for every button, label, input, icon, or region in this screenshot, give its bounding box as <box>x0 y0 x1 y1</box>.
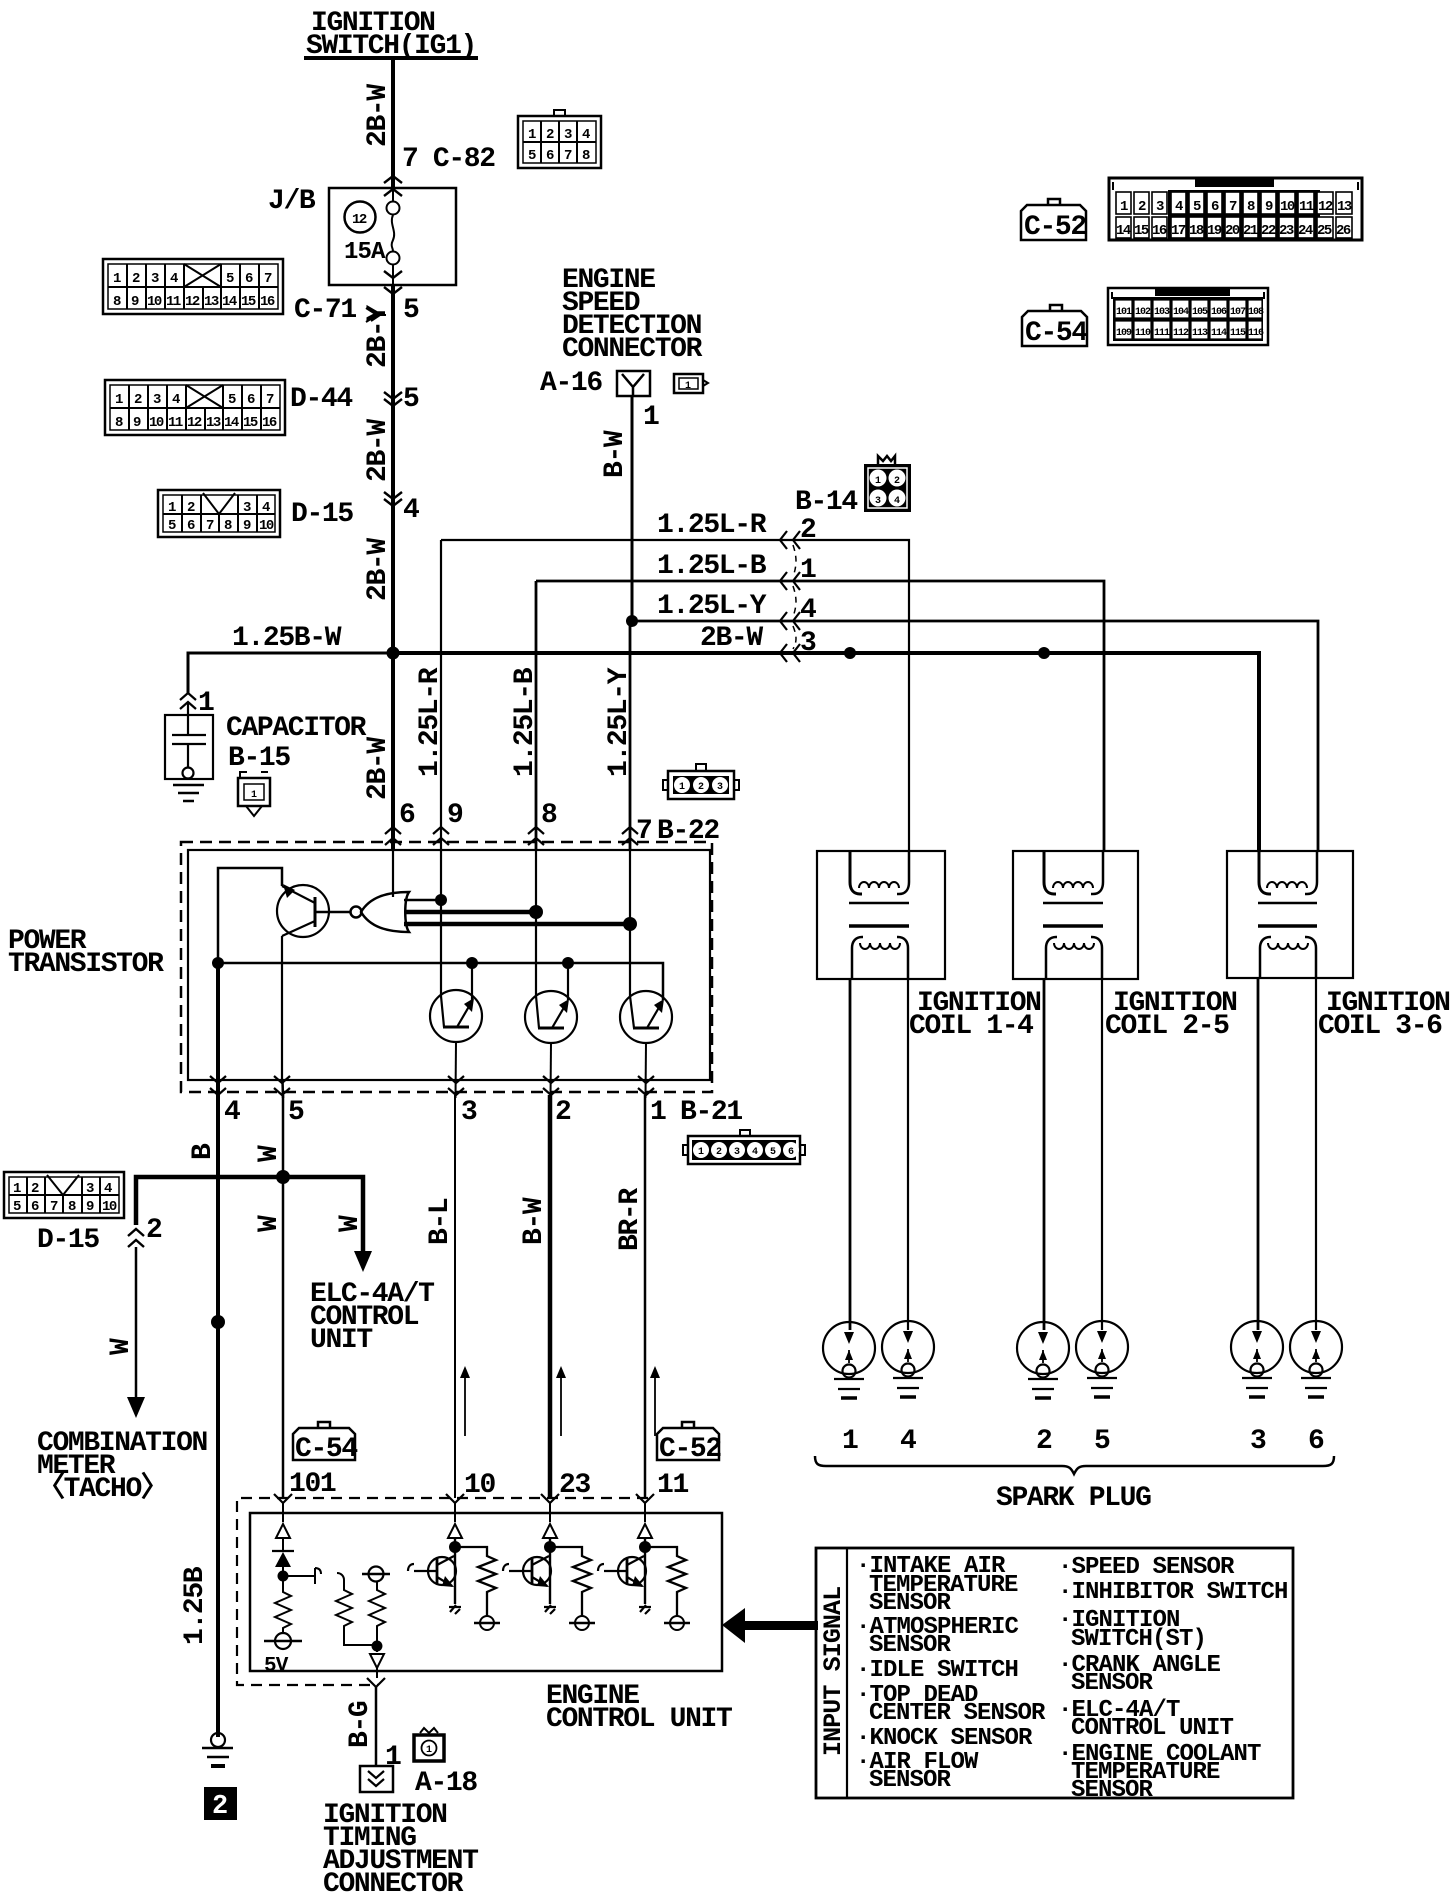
coil3 core <box>1258 902 1317 905</box>
svg-text:4: 4 <box>582 127 590 143</box>
svg-text:1: 1 <box>168 500 176 516</box>
ECU ch101: diode <box>275 1552 291 1567</box>
svg-text:W: W <box>335 1215 366 1232</box>
wire: BR-R from PT pin1 to ECU 11 <box>644 1095 647 1498</box>
chevrons down at B-21 pins <box>210 1076 226 1095</box>
ECU ch10: load resistor <box>455 1547 496 1616</box>
svg-text:104: 104 <box>1173 307 1189 318</box>
connector C-71 pin grid <box>103 259 283 314</box>
svg-text:2B-W: 2B-W <box>363 737 394 800</box>
svg-text:21: 21 <box>1243 223 1258 239</box>
svg-text:106: 106 <box>1211 307 1227 318</box>
coil3 primary winding <box>1259 851 1271 894</box>
svg-text:C-71: C-71 <box>294 295 356 326</box>
wire: pin4 emitter down <box>216 963 220 1098</box>
node: IGNITION SWITCH (IG1) header <box>304 8 478 62</box>
ECU ch101: tap stub <box>283 1568 321 1584</box>
svg-text:3: 3 <box>243 500 251 516</box>
svg-text:1: 1 <box>115 392 123 408</box>
svg-text:5: 5 <box>288 1097 304 1128</box>
connector A-18 box <box>360 1766 393 1792</box>
svg-text:2: 2 <box>1036 1426 1052 1457</box>
wire: B-G to A-18 <box>375 1687 378 1766</box>
svg-text:18: 18 <box>1189 223 1204 239</box>
svg-text:2B-W: 2B-W <box>363 538 394 601</box>
wire: W to combination meter <box>135 1247 138 1400</box>
wire: 2B-W from ignition switch to J/B <box>391 60 395 188</box>
svg-text:4: 4 <box>170 271 178 287</box>
connector B-14 2x2 <box>864 456 911 512</box>
spark plug 3 <box>1231 1321 1283 1397</box>
ECU mid: down arrow to B-G <box>370 1654 384 1668</box>
svg-text:5: 5 <box>403 295 419 326</box>
svg-text:5V: 5V <box>264 1655 289 1678</box>
svg-text:7: 7 <box>1229 199 1237 215</box>
svg-text:SENSOR: SENSOR <box>869 1590 952 1617</box>
gate input lines <box>404 899 441 902</box>
svg-text:CAPACITOR: CAPACITOR <box>226 713 367 744</box>
svg-text:116: 116 <box>1248 328 1264 339</box>
svg-text:10: 10 <box>1280 199 1295 215</box>
svg-text:1.25L-B: 1.25L-B <box>657 551 767 582</box>
svg-text:D-15: D-15 <box>291 499 353 530</box>
coil3 secondary winding <box>1260 937 1271 978</box>
ECU ch10: input arrow <box>448 1524 462 1538</box>
arrowhead to combination meter <box>127 1397 145 1418</box>
J/B junction block box <box>329 188 456 285</box>
svg-text:4: 4 <box>224 1097 240 1128</box>
svg-text:1: 1 <box>113 271 121 287</box>
svg-text:102: 102 <box>1135 307 1151 318</box>
svg-text:CONTROL UNIT: CONTROL UNIT <box>546 1704 732 1735</box>
svg-text:SENSOR: SENSOR <box>869 1767 952 1794</box>
svg-text:109: 109 <box>1116 328 1132 339</box>
svg-text:4: 4 <box>403 495 419 526</box>
svg-text:12: 12 <box>185 294 200 310</box>
power transistor solid box <box>188 850 710 1080</box>
svg-text:J/B: J/B <box>268 186 316 217</box>
svg-text:1: 1 <box>1120 199 1128 215</box>
transistor PNP Q1 <box>277 885 329 937</box>
ECU ch11: input arrow <box>638 1524 652 1538</box>
svg-text:4: 4 <box>104 1181 112 1197</box>
svg-text:C-54: C-54 <box>1025 318 1087 349</box>
svg-text:2: 2 <box>187 500 195 516</box>
svg-text:5: 5 <box>228 392 236 408</box>
wire: B-W from PT pin2 to ECU 23 <box>548 1095 553 1498</box>
B-14 dashed connector links <box>793 545 796 649</box>
svg-text:11: 11 <box>168 415 183 431</box>
svg-text:8: 8 <box>113 294 121 310</box>
svg-text:2B-W: 2B-W <box>363 84 394 147</box>
svg-text:5: 5 <box>1094 1426 1110 1457</box>
svg-text:13: 13 <box>206 415 221 431</box>
svg-text:8: 8 <box>224 518 232 534</box>
svg-text:SENSOR: SENSOR <box>869 1632 952 1659</box>
svg-text:25: 25 <box>1317 223 1332 239</box>
connector A-16 box with Y <box>617 371 650 396</box>
svg-text:3: 3 <box>1156 199 1164 215</box>
svg-text:7: 7 <box>564 148 572 164</box>
svg-text:17: 17 <box>1171 223 1186 239</box>
direction arrow B-W <box>560 1376 562 1436</box>
collector wires into NPNs <box>440 900 442 996</box>
svg-text:19: 19 <box>1207 223 1222 239</box>
svg-text:2: 2 <box>31 1181 39 1197</box>
svg-text:3: 3 <box>153 392 161 408</box>
spark plug wires coil3 <box>1257 978 1260 1330</box>
svg-text:3: 3 <box>461 1097 477 1128</box>
svg-text:2: 2 <box>146 1215 162 1246</box>
svg-text:W: W <box>254 1145 285 1162</box>
connector icon A-18 <box>414 1728 444 1761</box>
ECU ch11: load resistor <box>645 1547 686 1616</box>
svg-text:10: 10 <box>259 518 274 534</box>
PT internal wires pins 6-9 stubs <box>392 850 394 897</box>
svg-text:UNIT: UNIT <box>310 1325 372 1356</box>
spark plug wires coil1 <box>849 979 852 1330</box>
svg-text:B-W: B-W <box>519 1197 550 1245</box>
spark plug 4 <box>882 1321 934 1397</box>
wire: 1.25L-B bus <box>536 581 1104 851</box>
svg-text:2: 2 <box>134 392 142 408</box>
svg-text:2B-Y: 2B-Y <box>363 305 394 368</box>
fuse number circle 12 <box>345 202 376 233</box>
svg-text:9: 9 <box>447 800 463 831</box>
svg-text:2B-W: 2B-W <box>363 419 394 482</box>
coil2 secondary winding <box>1046 937 1057 979</box>
chevrons up at D-15 pin 2 <box>128 1229 144 1247</box>
svg-text:1: 1 <box>842 1426 858 1457</box>
svg-text:W: W <box>254 1215 285 1232</box>
svg-text:105: 105 <box>1192 307 1208 318</box>
wire: B-L from PT pin3 to ECU 10 <box>454 1095 456 1498</box>
svg-text:9: 9 <box>86 1199 94 1215</box>
svg-text:1.25B-W: 1.25B-W <box>232 623 342 654</box>
svg-text:2: 2 <box>1138 199 1146 215</box>
coil2 primary winding <box>1044 851 1056 894</box>
wire: thick W branch to D-15 and ELC <box>136 1177 363 1251</box>
connector icon B-21 <box>683 1130 805 1164</box>
ECU ch23: transistor <box>549 1538 551 1604</box>
transistor NPN Q3 <box>525 991 577 1043</box>
chevrons up at B-22 pins <box>385 827 401 845</box>
wire: 1.25L-R down to PT pin 9 <box>440 540 442 850</box>
svg-text:2: 2 <box>212 1792 228 1822</box>
svg-text:9: 9 <box>243 518 251 534</box>
svg-text:4: 4 <box>172 392 180 408</box>
direction arrow BR-R <box>654 1376 656 1436</box>
svg-text:11: 11 <box>657 1470 688 1501</box>
wire: W from PT pin5 down to ECU 101 <box>282 1095 285 1498</box>
input list right column <box>1058 1554 1288 1804</box>
emitter wires to B-21 pins <box>455 1042 458 1098</box>
svg-text:1: 1 <box>650 1097 666 1128</box>
svg-text:23: 23 <box>1279 223 1294 239</box>
wire: 2B-W D-15 to bus junction <box>391 498 395 655</box>
connector chevrons down below J/B <box>384 271 402 294</box>
svg-text:6: 6 <box>546 148 554 164</box>
svg-text:2: 2 <box>555 1097 571 1128</box>
ignition coil 1-4 box <box>817 851 945 979</box>
svg-text:5: 5 <box>226 271 234 287</box>
svg-text:10: 10 <box>149 415 164 431</box>
svg-text:6: 6 <box>245 271 253 287</box>
ECU ch101: 5V source <box>275 1633 291 1649</box>
wire: 2B-W D-44 to D-15 <box>391 398 395 499</box>
svg-text:C-52: C-52 <box>659 1434 721 1465</box>
power transistor dashed box <box>181 842 712 1092</box>
svg-text:114: 114 <box>1211 328 1227 339</box>
svg-text:8: 8 <box>541 800 557 831</box>
svg-text:2B-W: 2B-W <box>700 623 763 654</box>
wire: 1.25L-Y down to PT pin 7 <box>629 621 632 850</box>
svg-text:4: 4 <box>900 1426 916 1457</box>
svg-text:W: W <box>106 1338 137 1355</box>
svg-text:1.25L-R: 1.25L-R <box>657 510 767 541</box>
svg-text:8: 8 <box>1247 199 1255 215</box>
ECU ch10: transistor <box>454 1538 456 1604</box>
svg-text:B-14: B-14 <box>795 487 857 518</box>
svg-text:2: 2 <box>132 271 140 287</box>
svg-text:BR-R: BR-R <box>615 1188 646 1251</box>
wire: B-W from A-16 down to 1.25L-Y bus <box>631 396 634 621</box>
connector D-15 pin grid upper <box>158 490 280 537</box>
ENGINE SPEED DETECTION CONNECTOR label <box>562 265 703 365</box>
svg-text:1: 1 <box>528 127 536 143</box>
svg-text:SPARK PLUG: SPARK PLUG <box>996 1483 1151 1514</box>
svg-text:8: 8 <box>68 1199 76 1215</box>
PT emitter feed L path <box>218 868 282 963</box>
svg-text:1.25L-Y: 1.25L-Y <box>657 591 767 622</box>
coil2 core <box>1043 902 1103 905</box>
spark plug 6 <box>1290 1321 1342 1397</box>
svg-text:8: 8 <box>582 148 590 164</box>
svg-text:1: 1 <box>800 555 816 586</box>
svg-text:5: 5 <box>1193 199 1201 215</box>
connector C-54 pin grid 16pin <box>1108 288 1268 345</box>
svg-text:CONNECTOR: CONNECTOR <box>562 334 703 365</box>
input list left column <box>856 1553 1046 1794</box>
svg-text:15A: 15A <box>344 239 386 266</box>
svg-text:COIL 3-6: COIL 3-6 <box>1318 1011 1442 1042</box>
svg-text:CONTROL UNIT: CONTROL UNIT <box>1071 1715 1234 1742</box>
connector tag C-54 <box>1022 305 1087 349</box>
svg-text:14: 14 <box>224 415 239 431</box>
ECU ch23: input arrow <box>543 1524 557 1538</box>
wire: B from PT pin4 down <box>216 1095 220 1737</box>
svg-text:2: 2 <box>800 515 816 546</box>
connector D-15 pin grid lower <box>4 1172 124 1218</box>
svg-text:5: 5 <box>168 518 176 534</box>
direction arrow B-L <box>464 1376 466 1436</box>
svg-text:15: 15 <box>1134 223 1149 239</box>
arrowhead to ELC-4A/T <box>354 1251 372 1272</box>
wire: 2B-W down to PT pin 6 <box>391 653 395 850</box>
svg-text:13: 13 <box>204 294 219 310</box>
wire PNP collector to pin 5 <box>281 936 283 1080</box>
ECU ch101: resistor <box>275 1588 291 1633</box>
svg-text:22: 22 <box>1261 223 1276 239</box>
brace under spark plugs <box>815 1456 1334 1474</box>
svg-text:1.25B: 1.25B <box>180 1566 211 1645</box>
svg-text:111: 111 <box>1154 328 1170 339</box>
transistor NPN Q4 <box>620 991 672 1043</box>
svg-text:B-15: B-15 <box>228 743 290 774</box>
connector chevrons up at C-82 <box>384 176 402 196</box>
svg-text:·INHIBITOR SWITCH: ·INHIBITOR SWITCH <box>1058 1579 1288 1606</box>
svg-text:115: 115 <box>1230 328 1246 339</box>
svg-text:15: 15 <box>241 294 256 310</box>
svg-text:C-52: C-52 <box>1024 212 1086 243</box>
ECU ch23: load resistor <box>550 1547 591 1616</box>
ignition coil 2-5 box <box>1013 851 1138 979</box>
junction dots on 2B-W bus <box>844 647 856 659</box>
svg-text:7: 7 <box>264 271 272 287</box>
svg-text:D-44: D-44 <box>290 384 352 415</box>
svg-text:1.25L-B: 1.25L-B <box>510 667 541 777</box>
chevron down at B-G pin <box>367 1678 385 1687</box>
gate NOR U1 <box>315 892 409 932</box>
svg-text:SWITCH(ST): SWITCH(ST) <box>1071 1626 1206 1653</box>
svg-text:26: 26 <box>1336 223 1351 239</box>
coil1 primary winding <box>850 851 862 894</box>
connector tag C-52 <box>1021 199 1086 243</box>
svg-text:B-W: B-W <box>600 430 631 478</box>
svg-text:11: 11 <box>166 294 181 310</box>
page reference 2 <box>204 1787 237 1820</box>
wire: 2B-W bus to coils <box>393 653 1259 851</box>
svg-text:24: 24 <box>1298 223 1313 239</box>
svg-text:·KNOCK SENSOR: ·KNOCK SENSOR <box>856 1725 1033 1752</box>
svg-text:5: 5 <box>13 1199 21 1215</box>
connector tag C-54 on wire 101 <box>293 1422 357 1465</box>
svg-text:1: 1 <box>643 402 659 433</box>
svg-text:14: 14 <box>222 294 237 310</box>
connector icon A-16 single pin <box>674 374 708 393</box>
svg-text:113: 113 <box>1192 328 1208 339</box>
base drop wires <box>471 963 473 1000</box>
svg-text:B-21: B-21 <box>680 1097 742 1128</box>
svg-text:3: 3 <box>1250 1426 1266 1457</box>
input signal arrow into ECU <box>745 1621 818 1630</box>
ECU mid: right resistor <box>369 1582 385 1652</box>
svg-text:16: 16 <box>262 415 277 431</box>
svg-text:INPUT SIGNAL: INPUT SIGNAL <box>819 1587 848 1756</box>
base bus <box>218 963 663 1000</box>
svg-text:·IDLE SWITCH: ·IDLE SWITCH <box>856 1657 1018 1684</box>
ignition coil 3-6 box <box>1227 851 1353 978</box>
ECU mid: left resistor <box>336 1573 377 1645</box>
connector D-44 pin grid <box>105 380 285 435</box>
svg-text:SENSOR: SENSOR <box>1071 1777 1154 1804</box>
connector icon B-22 <box>663 764 739 799</box>
svg-text:110: 110 <box>1135 328 1151 339</box>
wire: 1.25L-B down to PT pin 8 <box>535 581 538 850</box>
connector C-82 pin grid <box>518 110 601 168</box>
connector chevrons down at D-44 <box>384 392 402 406</box>
svg-text:A-16: A-16 <box>540 368 602 399</box>
branch mark at C-71 <box>366 308 386 322</box>
svg-text:101: 101 <box>1116 307 1132 318</box>
coil1 core <box>849 902 909 905</box>
svg-text:3: 3 <box>151 271 159 287</box>
wire: 1.25L-R bus <box>441 540 909 851</box>
svg-text:13: 13 <box>1337 199 1352 215</box>
ECU dashed border <box>237 1498 648 1685</box>
svg-text:·SPEED SENSOR: ·SPEED SENSOR <box>1058 1554 1235 1581</box>
connector C-52 pin grid 26pin <box>1109 178 1362 240</box>
svg-text:12: 12 <box>352 212 367 228</box>
svg-text:6: 6 <box>31 1199 39 1215</box>
svg-text:C-54: C-54 <box>295 1434 357 1465</box>
svg-text:14: 14 <box>1116 223 1131 239</box>
connector icon B-15 <box>238 772 270 816</box>
svg-text:6: 6 <box>1211 199 1219 215</box>
svg-text:16: 16 <box>1152 223 1167 239</box>
svg-text:15: 15 <box>243 415 258 431</box>
capacitor ground <box>173 785 204 801</box>
svg-text:B: B <box>188 1143 219 1160</box>
svg-text:CENTER SENSOR: CENTER SENSOR <box>869 1700 1046 1727</box>
svg-text:1.25L-R: 1.25L-R <box>415 667 446 777</box>
svg-text:SENSOR: SENSOR <box>1071 1670 1154 1697</box>
svg-text:7: 7 <box>266 392 274 408</box>
svg-text:COIL 2-5: COIL 2-5 <box>1105 1011 1229 1042</box>
svg-text:B-G: B-G <box>345 1701 376 1748</box>
svg-text:5: 5 <box>403 384 419 415</box>
svg-text:1: 1 <box>13 1181 21 1197</box>
svg-text:107: 107 <box>1230 307 1246 318</box>
svg-text:12: 12 <box>1318 199 1333 215</box>
spark plug 1 <box>823 1322 875 1398</box>
svg-text:3: 3 <box>86 1181 94 1197</box>
svg-text:B-L: B-L <box>425 1198 456 1245</box>
ECU solid box <box>250 1513 722 1671</box>
svg-text:101: 101 <box>289 1469 336 1500</box>
coil1 secondary winding <box>852 937 863 979</box>
svg-text:COIL 1-4: COIL 1-4 <box>909 1011 1033 1042</box>
svg-text:5: 5 <box>528 148 536 164</box>
wire: 1.25B-W capacitor branch <box>188 653 393 694</box>
svg-text:12: 12 <box>187 415 202 431</box>
svg-text:112: 112 <box>1173 328 1189 339</box>
connector tag C-52 on wire 11 <box>657 1422 721 1465</box>
svg-text:6: 6 <box>247 392 255 408</box>
chevrons up at capacitor pin 1 <box>180 693 196 709</box>
svg-text:10: 10 <box>464 1470 495 1501</box>
connector chevrons down at D-15 <box>384 492 402 506</box>
wire: 2B-Y J/B to D-44 <box>391 285 395 398</box>
svg-text:4: 4 <box>262 500 270 516</box>
svg-text:6: 6 <box>1308 1426 1324 1457</box>
svg-text:4: 4 <box>1175 199 1183 215</box>
svg-text:9: 9 <box>131 294 139 310</box>
svg-text:4: 4 <box>800 595 816 626</box>
chevrons down at ECU pins <box>274 1494 292 1503</box>
svg-text:20: 20 <box>1225 223 1240 239</box>
ECU ch101: input arrow <box>276 1524 290 1552</box>
svg-text:7: 7 <box>206 518 214 534</box>
ECU pin stubs <box>282 1503 284 1522</box>
wire: 1.25L-Y bus <box>630 621 1318 851</box>
spark plug 2 <box>1017 1322 1069 1398</box>
spark plug 5 <box>1076 1321 1128 1397</box>
junction dot B-W joins 1.25L-Y <box>626 615 638 627</box>
svg-text:7: 7 <box>50 1199 58 1215</box>
svg-text:10: 10 <box>147 294 162 310</box>
svg-text:A-18: A-18 <box>415 1768 477 1799</box>
